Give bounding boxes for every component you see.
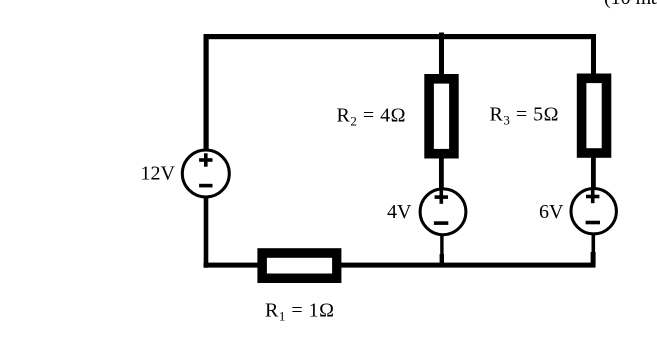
- wire 6V source to bottom right corner: [592, 233, 596, 255]
- voltage source V1 12V circle: [182, 150, 229, 197]
- wire node A: R2 branch top (top wire to R2): [439, 33, 444, 76]
- wire top horizontal: [204, 34, 596, 39]
- V1 plus sign: [199, 158, 212, 162]
- wire R2 to 4V source: [439, 156, 444, 190]
- svg-text:12V: 12V: [141, 163, 176, 185]
- V3 minus sign: [586, 221, 600, 225]
- voltage source V3 6V circle: [571, 189, 616, 234]
- svg-text:6V: 6V: [539, 201, 564, 223]
- svg-text:R3 = 5Ω: R3 = 5Ω: [490, 104, 560, 128]
- wire junction cap at bottom node: [440, 254, 444, 264]
- svg-text:R2 = 4Ω: R2 = 4Ω: [337, 104, 407, 128]
- V2 minus sign: [434, 221, 448, 225]
- wire bottom horizontal: [204, 263, 596, 268]
- svg-text:(10 marks): (10 marks): [604, 0, 657, 9]
- wire left vertical upper (top wire to 12V source): [204, 34, 209, 151]
- V3 plus sign: [586, 195, 599, 199]
- wire 4V source to bottom wire: [440, 234, 443, 258]
- V1 minus sign: [199, 184, 212, 188]
- wire node B: R3 branch top (top wire to R3): [591, 34, 596, 76]
- svg-text:R1 = 1Ω: R1 = 1Ω: [265, 300, 335, 324]
- wire R3 to 6V source: [591, 156, 596, 191]
- resistor R2 body: [424, 74, 458, 159]
- V2 plus sign: [435, 195, 448, 199]
- resistor R1 body: [257, 248, 341, 283]
- svg-text:4V: 4V: [387, 201, 412, 223]
- voltage source V2 4V circle: [420, 189, 466, 235]
- resistor R3 body: [577, 74, 612, 158]
- wire corner cap bottom right: [591, 252, 596, 266]
- wire left vertical lower (12V source to bottom wire): [204, 196, 209, 268]
